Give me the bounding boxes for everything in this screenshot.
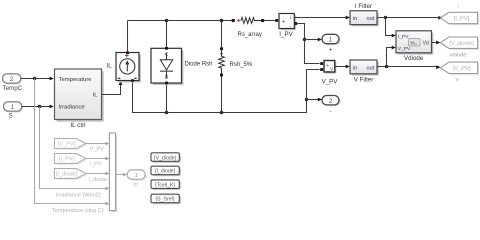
goto tag [I_PV] [440, 5, 479, 26]
input port 1 S [4, 102, 24, 120]
svg-text:v: v [456, 77, 459, 83]
block V Filter [350, 60, 379, 83]
svg-text:[V_PV]: [V_PV] [452, 66, 470, 72]
svg-text:1: 1 [134, 172, 138, 179]
node junction top rail at diode [165, 19, 169, 23]
svg-text:+: + [329, 47, 333, 54]
wire V_PV - to port 2 and bottom rail [307, 70, 320, 113]
node junction on S wire [38, 105, 41, 108]
wire S to IL ctrl [22, 106, 52, 108]
svg-text:V Filter: V Filter [354, 76, 374, 83]
svg-text:V_PV: V_PV [322, 78, 339, 85]
svg-text:Rsh_5%: Rsh_5% [230, 62, 253, 68]
svg-text:IL: IL [107, 62, 113, 69]
svg-text:IL: IL [93, 92, 99, 98]
svg-text:v: v [330, 66, 333, 72]
svg-text:out: out [367, 65, 375, 71]
wire IL ctrl out to current source control [102, 84, 121, 95]
svg-text:i: i [290, 15, 291, 21]
wire V Filter out to goto V_PV [377, 66, 439, 68]
svg-text:I Filter: I Filter [355, 3, 372, 10]
svg-text:Diode Rsh: Diode Rsh [185, 62, 213, 68]
wire TempC to IL ctrl [21, 78, 52, 80]
output port 2 [322, 96, 341, 115]
svg-text:S: S [9, 112, 13, 119]
svg-text:[I_PV]: [I_PV] [59, 157, 75, 163]
svg-text:{S_Sref}: {S_Sref} [155, 197, 175, 203]
wire down to Vdiode I_PV in [386, 18, 395, 36]
svg-text:[V_PV]: [V_PV] [58, 142, 76, 148]
svg-text:-: - [290, 23, 292, 29]
node junction port2 branch [305, 98, 308, 101]
wire from [I_PV] to mux [86, 158, 108, 160]
block Vdiode [396, 31, 433, 62]
subsystem IL ctrl [55, 69, 104, 129]
svg-text:Temperature: Temperature [59, 77, 93, 83]
resistor Rsh vertical [219, 47, 225, 76]
output port 1 [322, 34, 341, 53]
svg-text:TempC: TempC [3, 85, 23, 92]
svg-text:V_PV: V_PV [398, 46, 411, 52]
node junction bottom rail at Rsh [220, 111, 224, 115]
svg-text:+: + [281, 20, 285, 26]
svg-text:i: i [457, 5, 458, 11]
svg-text:I_PV: I_PV [398, 34, 409, 40]
from tag [V_PV] bottom [54, 139, 87, 150]
svg-text:V_PV: V_PV [90, 147, 105, 153]
svg-text:{Tcell_K}: {Tcell_K} [155, 182, 175, 188]
wire V_PV out to V Filter [335, 66, 348, 68]
output port 1 m [127, 170, 146, 189]
svg-text:[V_diode]: [V_diode] [449, 41, 474, 47]
from tag [I_PV] bottom [54, 154, 87, 165]
svg-text:[I_PV]: [I_PV] [454, 16, 470, 22]
svg-text:Vd: Vd [423, 41, 429, 47]
wire to output port 1 [305, 39, 321, 41]
wire: bottom rail [133, 76, 307, 112]
svg-text:[I_diode]: [I_diode] [56, 172, 78, 178]
svg-text:1: 1 [11, 104, 15, 111]
node junction after I Filter [384, 16, 387, 19]
current sensor I_PV [275, 14, 297, 39]
wire from [I_diode] to mux [86, 173, 108, 175]
svg-text:in: in [353, 65, 357, 71]
scoped tag {V_diode} [151, 153, 181, 163]
wire I Filter out to goto I_PV [377, 17, 441, 19]
svg-text:I_PV: I_PV [279, 31, 293, 38]
wire I_PV i out to I Filter [294, 17, 348, 19]
svg-text:IL ctrl: IL ctrl [70, 122, 85, 129]
svg-text:Irradiance (W/m2): Irradiance (W/m2) [56, 193, 101, 199]
node junction bottom rail at diode [165, 111, 169, 115]
wire from [V_PV] to mux [86, 143, 108, 145]
wire I_PV - out down to V_PV + and port 1 [297, 24, 319, 64]
node junction after V Filter [385, 65, 388, 68]
resistor Rs_array horizontal [232, 18, 276, 24]
diode block Diode Rsh [151, 47, 184, 85]
node junction port1 branch [303, 38, 306, 41]
wire to output port 2 [307, 99, 321, 101]
wire mux out to port m [116, 174, 126, 176]
svg-text:2: 2 [329, 98, 333, 105]
svg-text:I_diode: I_diode [89, 177, 107, 183]
wire: top rail [128, 21, 233, 53]
svg-text:2: 2 [10, 76, 14, 83]
wire: Rsh top [221, 21, 223, 48]
wire: S down to Irradiance line [40, 107, 108, 189]
svg-text:{V_diode}: {V_diode} [154, 155, 177, 161]
goto tag [V_diode] [440, 37, 479, 59]
node junction top rail at Rsh [220, 19, 224, 23]
svg-text:vdiode: vdiode [449, 53, 466, 59]
scoped tag {Tcell_K} [151, 180, 181, 190]
svg-text:{I_diode}: {I_diode} [155, 169, 176, 175]
scoped tag {I_diode} [151, 166, 181, 176]
svg-text:1: 1 [329, 37, 333, 44]
svg-text:m: m [133, 182, 138, 188]
svg-text:in: in [353, 16, 357, 22]
current source block [116, 51, 141, 82]
svg-text:Temperature (deg C): Temperature (deg C) [52, 208, 104, 214]
svg-text:Rs_array: Rs_array [238, 32, 262, 38]
voltage sensor V_PV [320, 61, 338, 86]
wire up to Vdiode V_PV in [387, 48, 395, 67]
svg-text:Irradiance: Irradiance [59, 105, 86, 111]
wire: TempC down to Temperature line [35, 79, 108, 204]
svg-text:I_PV: I_PV [90, 162, 102, 168]
wire: diode top [166, 21, 168, 49]
scoped tag {S_Sref} [151, 194, 181, 204]
svg-text:Vdiode: Vdiode [404, 55, 424, 62]
goto tag [V_PV] [440, 62, 479, 83]
svg-text:out: out [367, 16, 375, 22]
from tag [I_diode] bottom [54, 169, 87, 180]
block I Filter [350, 3, 379, 26]
wire Vdiode out to goto V_diode [432, 42, 439, 44]
svg-text:-: - [329, 108, 331, 115]
node junction on TempC wire [33, 77, 36, 80]
mux block [109, 133, 117, 212]
input port 2 TempC [3, 74, 23, 92]
